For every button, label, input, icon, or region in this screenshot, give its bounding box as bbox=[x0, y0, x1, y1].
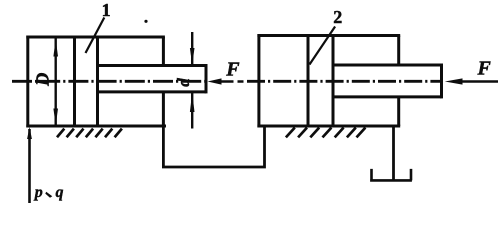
piston 1 left face bbox=[73, 37, 76, 126]
svg-text:F: F bbox=[225, 58, 240, 80]
svg-text:2: 2 bbox=[333, 7, 342, 27]
leader line for label 1 bbox=[86, 18, 105, 54]
supply line p,q with up arrow into cylinder 1 bbox=[28, 129, 31, 203]
force arrow F on rod 1 bbox=[221, 80, 244, 83]
cylinder 1 body left edge bbox=[26, 36, 29, 128]
dimension d lower line bbox=[191, 92, 193, 129]
dimension D lower arrowhead bbox=[53, 109, 58, 126]
dimension d upper arrowhead (points down) bbox=[190, 48, 195, 65]
cylinder 1 head right edge upper segment bbox=[162, 37, 165, 66]
cylinder 1 body bottom edge bbox=[26, 125, 166, 128]
piston rod 2 end face bbox=[440, 64, 443, 99]
hatching under cylinder 1 bbox=[57, 129, 122, 138]
cylinder 2 body top edge bbox=[257, 34, 400, 37]
centerline cylinder 2 bbox=[247, 80, 441, 83]
dimension d lower arrowhead (points up) bbox=[190, 92, 195, 112]
cylinder 2 head right edge lower segment bbox=[397, 97, 400, 126]
piston 1 right face bbox=[96, 37, 99, 126]
CJK comma between p and q bbox=[45, 192, 52, 198]
tank symbol bbox=[370, 169, 412, 181]
cylinder 2 body left edge bbox=[257, 34, 260, 127]
svg-text:d: d bbox=[174, 78, 193, 87]
force arrow F on rod 2 bbox=[461, 80, 498, 83]
drain pipe from cylinder 2 to tank bbox=[392, 127, 395, 182]
piston rod 1 bottom edge bbox=[98, 90, 207, 93]
dimension D line bbox=[55, 39, 57, 126]
dimension d upper line bbox=[191, 32, 193, 66]
dimension D upper arrowhead bbox=[53, 39, 58, 57]
piston rod 2 top edge bbox=[333, 64, 442, 67]
svg-text:D: D bbox=[32, 73, 52, 87]
svg-text:p: p bbox=[33, 184, 43, 201]
piston 2 right face bbox=[332, 36, 335, 127]
centerline cylinder 1 bbox=[12, 80, 206, 83]
svg-text:F: F bbox=[477, 57, 492, 79]
leader line for label 2 bbox=[310, 27, 336, 65]
piston 2 left face bbox=[307, 36, 310, 127]
svg-text:q: q bbox=[56, 184, 64, 201]
piston rod 1 top edge bbox=[98, 64, 207, 67]
hatching under cylinder 2 bbox=[286, 128, 366, 138]
cylinder 2 body bottom edge bbox=[257, 125, 400, 128]
piston rod 1 end face bbox=[205, 64, 208, 93]
connecting pipe from cylinder 1 to cylinder 2 bbox=[163, 126, 264, 167]
cylinder 1 body top edge bbox=[26, 36, 165, 39]
cylinder 1 head right edge lower segment bbox=[162, 92, 165, 126]
svg-text:1: 1 bbox=[102, 0, 111, 20]
piston rod 2 bottom edge bbox=[333, 95, 442, 98]
cylinder 2 head right edge upper segment bbox=[397, 36, 400, 66]
stray dot bbox=[144, 20, 147, 23]
